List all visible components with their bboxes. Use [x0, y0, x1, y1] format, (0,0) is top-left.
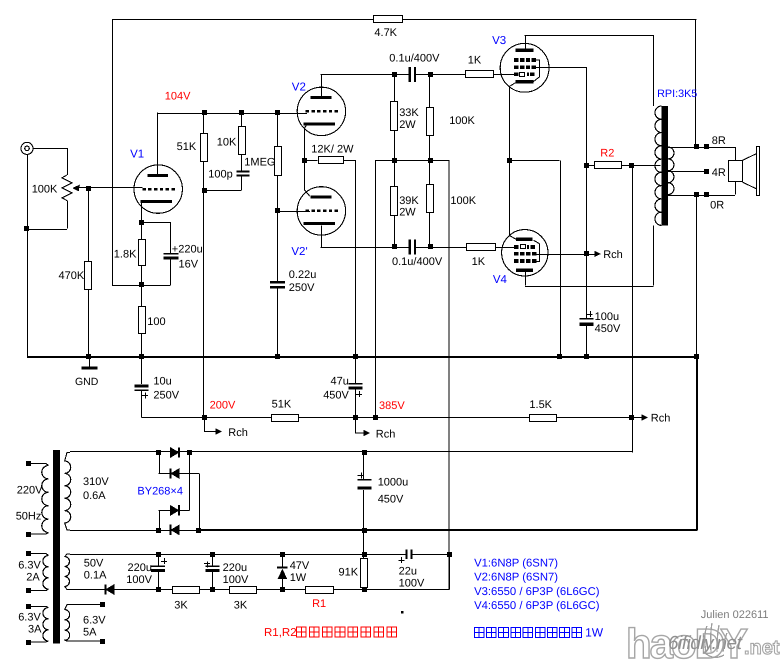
svg-text:0.1u/400V: 0.1u/400V	[392, 256, 443, 268]
svg-text:33K: 33K	[399, 107, 419, 119]
svg-text:4R: 4R	[712, 167, 726, 179]
svg-text:V1:6N8P (6SN7): V1:6N8P (6SN7)	[474, 557, 558, 569]
svg-text:220u: 220u	[128, 562, 152, 574]
svg-text:0.1A: 0.1A	[84, 570, 107, 582]
svg-text:1K: 1K	[472, 256, 486, 268]
svg-text:Rch: Rch	[603, 249, 623, 261]
svg-text:6.3V: 6.3V	[83, 615, 106, 627]
svg-text:BY268×4: BY268×4	[137, 486, 183, 498]
svg-text:V2': V2'	[291, 246, 307, 258]
svg-text:47V: 47V	[290, 560, 310, 572]
svg-text:V4: V4	[493, 274, 508, 286]
svg-text:250V: 250V	[289, 282, 315, 294]
svg-text:0.22u: 0.22u	[289, 269, 317, 281]
svg-text:470K: 470K	[59, 270, 85, 282]
svg-text:100p: 100p	[208, 169, 232, 181]
svg-text:RPI:3K5: RPI:3K5	[657, 88, 697, 100]
svg-text:47u: 47u	[331, 376, 349, 388]
svg-text:V3:6550 / 6P3P (6L6GC): V3:6550 / 6P3P (6L6GC)	[474, 586, 600, 598]
svg-text:Rch: Rch	[651, 413, 671, 425]
svg-text:0R: 0R	[710, 199, 724, 211]
svg-text:16V: 16V	[179, 259, 199, 271]
svg-text:385V: 385V	[379, 400, 405, 412]
svg-text:2W: 2W	[399, 119, 416, 131]
svg-text:100V: 100V	[126, 574, 152, 586]
svg-text:V2: V2	[292, 82, 306, 94]
svg-text:310V: 310V	[83, 476, 109, 488]
svg-text:Rch: Rch	[376, 428, 396, 440]
svg-text:0.6A: 0.6A	[83, 490, 106, 502]
svg-text:91K: 91K	[339, 566, 359, 578]
svg-text:R2: R2	[600, 148, 614, 160]
svg-text:+220u: +220u	[172, 244, 203, 256]
svg-text:R1,R2: R1,R2	[264, 627, 297, 639]
svg-text:3A: 3A	[28, 624, 42, 636]
svg-text:51K: 51K	[272, 399, 292, 411]
svg-text:22u: 22u	[399, 566, 417, 578]
svg-text:6.3V: 6.3V	[18, 560, 41, 572]
svg-text:1.5K: 1.5K	[529, 399, 552, 411]
svg-text:100K: 100K	[449, 115, 475, 127]
svg-text:100K: 100K	[450, 195, 476, 207]
svg-text:1W: 1W	[290, 572, 307, 584]
svg-text:3K: 3K	[234, 600, 248, 612]
svg-text:10K: 10K	[217, 136, 237, 148]
svg-text:V1: V1	[130, 149, 144, 161]
svg-text:1.8K: 1.8K	[114, 248, 137, 260]
svg-text:100u: 100u	[595, 311, 619, 323]
svg-text:100V: 100V	[223, 574, 249, 586]
svg-text:2A: 2A	[26, 572, 40, 584]
svg-text:.net: .net	[744, 637, 780, 659]
svg-text:V4:6550 / 6P3P (6L6GC): V4:6550 / 6P3P (6L6GC)	[474, 600, 600, 612]
svg-text:200V: 200V	[210, 400, 236, 412]
svg-text:10u: 10u	[153, 376, 171, 388]
svg-text:50V: 50V	[84, 558, 104, 570]
svg-text:220u: 220u	[223, 562, 247, 574]
svg-text:39K: 39K	[399, 195, 419, 207]
svg-text:100: 100	[147, 316, 165, 328]
svg-text:Rch: Rch	[228, 427, 248, 439]
svg-text:100V: 100V	[399, 578, 425, 590]
svg-text:450V: 450V	[595, 323, 621, 335]
svg-text:1MEG: 1MEG	[244, 157, 275, 169]
svg-text:220V: 220V	[17, 485, 43, 497]
svg-text:104V: 104V	[165, 91, 191, 103]
svg-text:V2:6N8P (6SN7): V2:6N8P (6SN7)	[474, 571, 558, 583]
svg-text:450V: 450V	[323, 390, 349, 402]
svg-text:R1: R1	[312, 598, 326, 610]
svg-text:5A: 5A	[83, 627, 97, 639]
svg-text:1W: 1W	[585, 626, 604, 640]
svg-text:1000u: 1000u	[378, 476, 409, 488]
svg-text:12K/ 2W: 12K/ 2W	[311, 144, 354, 156]
svg-text:250V: 250V	[153, 390, 179, 402]
svg-text:V3: V3	[492, 35, 506, 47]
svg-text:450V: 450V	[378, 493, 404, 505]
svg-text:GND: GND	[75, 376, 99, 388]
svg-text:3K: 3K	[174, 600, 188, 612]
svg-text:4.7K: 4.7K	[374, 27, 397, 39]
svg-text:1K: 1K	[468, 55, 482, 67]
svg-text:51K: 51K	[177, 141, 197, 153]
svg-text:0.1u/400V: 0.1u/400V	[389, 53, 440, 65]
svg-text:50Hz: 50Hz	[16, 511, 42, 523]
svg-text:2W: 2W	[399, 206, 416, 218]
svg-text:100K: 100K	[32, 183, 58, 195]
svg-text:6.3V: 6.3V	[18, 612, 41, 624]
svg-text:8R: 8R	[712, 135, 726, 147]
